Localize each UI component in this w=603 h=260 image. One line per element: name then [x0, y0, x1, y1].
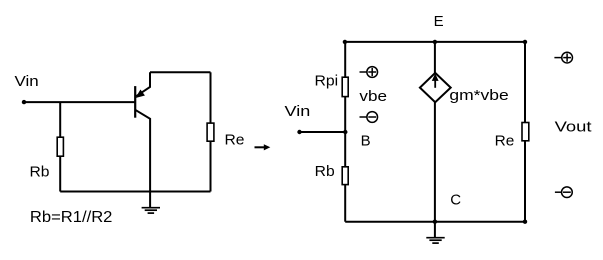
resistor Rb (left circuit)	[57, 137, 63, 156]
svg-text:B: B	[361, 132, 371, 149]
polarity minus terminal (vbe)	[360, 112, 378, 123]
svg-text:vbe: vbe	[359, 88, 387, 105]
wire ground stub (right circuit)	[434, 222, 436, 237]
svg-text:Rb: Rb	[315, 163, 335, 180]
wire top-right down to Re (right circuit)	[524, 42, 526, 123]
node Vin terminal (right circuit)	[297, 130, 301, 134]
arrow (transform between circuits)	[255, 144, 271, 150]
node Vin terminal (left circuit)	[22, 100, 26, 104]
polarity plus terminal (Vout)	[554, 52, 572, 63]
wire Vin terminal to node B	[300, 131, 346, 133]
svg-text:Re: Re	[225, 132, 245, 149]
wire top rail (left circuit)	[150, 71, 211, 73]
node B junction dot	[343, 130, 347, 134]
svg-text:Rb: Rb	[30, 164, 50, 181]
wire bottom rail (left circuit)	[60, 191, 210, 193]
svg-text:Vout: Vout	[555, 118, 593, 135]
wire Rb bottom to bottom rail (right circuit)	[344, 185, 346, 222]
wire Re branch down (left circuit)	[210, 72, 212, 123]
node dot top-right	[523, 40, 527, 44]
dependent current source gm*vbe (diamond)	[420, 73, 451, 102]
svg-text:Rb=R1//R2: Rb=R1//R2	[30, 209, 113, 226]
polarity minus terminal (Vout)	[555, 187, 572, 198]
node dot bottom-right	[523, 220, 527, 224]
wire E rail down to dependent source	[434, 42, 436, 73]
wire base lead Vin to Q1 base	[24, 101, 135, 103]
wire top-left down to Rpi	[344, 42, 346, 77]
wire Re bottom to bottom rail (left circuit)	[210, 141, 212, 191]
ground (right circuit)	[426, 238, 444, 243]
polarity plus terminal (vbe)	[360, 67, 378, 78]
resistor Re (left circuit)	[207, 123, 214, 141]
node dot bottom-middle C	[433, 220, 437, 224]
svg-text:E: E	[434, 13, 444, 30]
svg-text:Re: Re	[495, 133, 515, 150]
node dot top-middle E	[433, 40, 437, 44]
resistor Re (right circuit)	[522, 123, 529, 141]
transistor Q1	[135, 72, 150, 207]
wire Re bottom to bottom rail (right circuit)	[524, 141, 526, 222]
wire dependent source to bottom rail	[434, 102, 436, 222]
svg-text:C: C	[450, 192, 461, 209]
svg-text:gm*vbe: gm*vbe	[449, 87, 508, 104]
svg-text:Vin: Vin	[15, 73, 39, 90]
wire bottom rail (right circuit)	[345, 221, 525, 223]
node dot top-left (right circuit)	[343, 40, 347, 44]
wire top rail (right circuit)	[345, 41, 525, 43]
resistor Rpi	[342, 77, 348, 96]
wire Rb branch down from input wire	[59, 102, 61, 137]
svg-text:Vin: Vin	[285, 103, 311, 120]
wire Rpi to Rb (through node B)	[344, 97, 346, 167]
ground (left circuit)	[142, 208, 160, 213]
svg-text:Rpi: Rpi	[315, 72, 339, 89]
resistor Rb (right circuit)	[342, 167, 348, 185]
wire Rb bottom to bottom rail	[59, 156, 61, 191]
